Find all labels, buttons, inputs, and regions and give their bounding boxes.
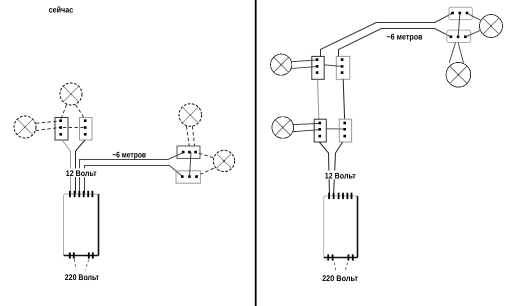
wire run lower (to X4) xyxy=(85,166,183,195)
lamp HL1 (left panel top) xyxy=(60,83,82,105)
wire HL1 to X1 top dot (dashed) xyxy=(61,105,67,120)
wire HL8 to X9 top dot xyxy=(293,123,319,124)
terminal block X6 xyxy=(336,56,350,79)
wire X6 bottom to X10 top xyxy=(343,79,344,119)
wire run upper (right panel) xyxy=(321,13,453,56)
wire HL4 to X4 right dot (dashed) xyxy=(198,168,214,175)
PSU1 bottom terminal pins xyxy=(69,252,94,258)
terminal block X7 (top right upper) xyxy=(449,7,472,19)
terminal block X2 xyxy=(80,118,93,141)
power supply PSU2 xyxy=(324,196,358,258)
wire HL6 to X7 right dot xyxy=(468,14,482,21)
terminal block X4 xyxy=(176,171,200,183)
wire X9 bottom to PSU2 xyxy=(319,142,329,196)
terminal block X8 (top right lower) xyxy=(447,30,471,42)
wire PSU1 to 220V label right (dashed) xyxy=(85,260,89,270)
power supply PSU1 xyxy=(64,194,99,256)
lamp HL7 (right panel, below X8) xyxy=(446,63,471,88)
wire run upper (to X3) xyxy=(80,153,184,194)
wire X3-X4 middle link xyxy=(190,152,192,177)
wire X9-X10 middle link xyxy=(326,128,345,130)
wire HL4 to X3 right dot (dashed) xyxy=(197,153,213,158)
svg-text:~6 метров: ~6 метров xyxy=(387,33,423,42)
wire HL5 to X5 top dot xyxy=(292,60,317,62)
svg-text:220 Вольт: 220 Вольт xyxy=(65,273,99,282)
wire HL3 to X3 middle dot (dashed) xyxy=(187,126,190,146)
wire X5 bottom to X9 top xyxy=(318,79,319,119)
terminal block X3 xyxy=(177,146,200,158)
svg-text:12 Вольт: 12 Вольт xyxy=(325,171,356,180)
svg-text:220 Вольт: 220 Вольт xyxy=(322,274,358,283)
wire HL2 to X1 middle dot (dashed) xyxy=(36,127,60,130)
wire HL6 to X8 right dot xyxy=(466,30,481,36)
lamp HL8 (right panel lower-left) xyxy=(272,117,294,139)
terminal block X10 xyxy=(339,119,351,142)
svg-text:~6 метров: ~6 метров xyxy=(112,150,146,159)
svg-text:12 Вольт: 12 Вольт xyxy=(66,169,97,178)
wire PSU1 to 220V label left (dashed) xyxy=(74,259,76,269)
wire run lower (right panel) xyxy=(339,29,452,57)
wire X10 bottom to PSU2 xyxy=(334,142,343,196)
terminal block X5 xyxy=(312,56,324,79)
wire X1 bottom to PSU1 xyxy=(62,140,71,194)
wire X8 bottom-left to HL7 xyxy=(449,43,455,63)
svg-text:сейчас: сейчас xyxy=(49,6,74,15)
wire HL8 to X9 middle dot xyxy=(293,130,320,132)
wire PSU2 to 220V label left (dashed) xyxy=(334,263,336,273)
divider line xyxy=(255,0,257,306)
wire PSU2 to 220V label right (dashed) xyxy=(345,263,348,273)
wire X2 bottom to PSU1 xyxy=(76,140,86,194)
wire X8 middle to HL7 xyxy=(458,43,463,63)
terminal block X1 xyxy=(55,118,68,141)
PSU2 top terminal pins xyxy=(328,193,352,199)
wire HL1 to X2 top dot (dashed) xyxy=(76,105,86,120)
wire HL2 to X1 top dot (dashed) xyxy=(36,121,60,123)
label "12 Вольт" (right panel) xyxy=(324,171,357,181)
wire X5-X6 middle link xyxy=(324,65,342,67)
wire HL3 to X3 right dot (dashed) xyxy=(192,126,194,146)
terminal block X9 xyxy=(314,119,326,142)
lamp HL5 (right panel upper-left) xyxy=(271,54,292,75)
wire HL5 to X5 middle dot xyxy=(291,67,316,69)
lamp HL3 (left panel, right group top) xyxy=(179,104,202,127)
label "12 Вольт" (left panel) xyxy=(65,168,98,178)
PSU1 top terminal pins xyxy=(69,191,93,197)
lamp HL4 (left panel, right group right) xyxy=(213,150,234,171)
wire X7-X8 middle link xyxy=(458,13,460,37)
lamp HL2 (left panel left) xyxy=(14,116,36,138)
PSU2 bottom terminal pins xyxy=(327,254,353,260)
wire X1-X2 middle link (dashed) xyxy=(63,127,84,129)
lamp HL6 (right panel top-right) xyxy=(480,15,503,38)
